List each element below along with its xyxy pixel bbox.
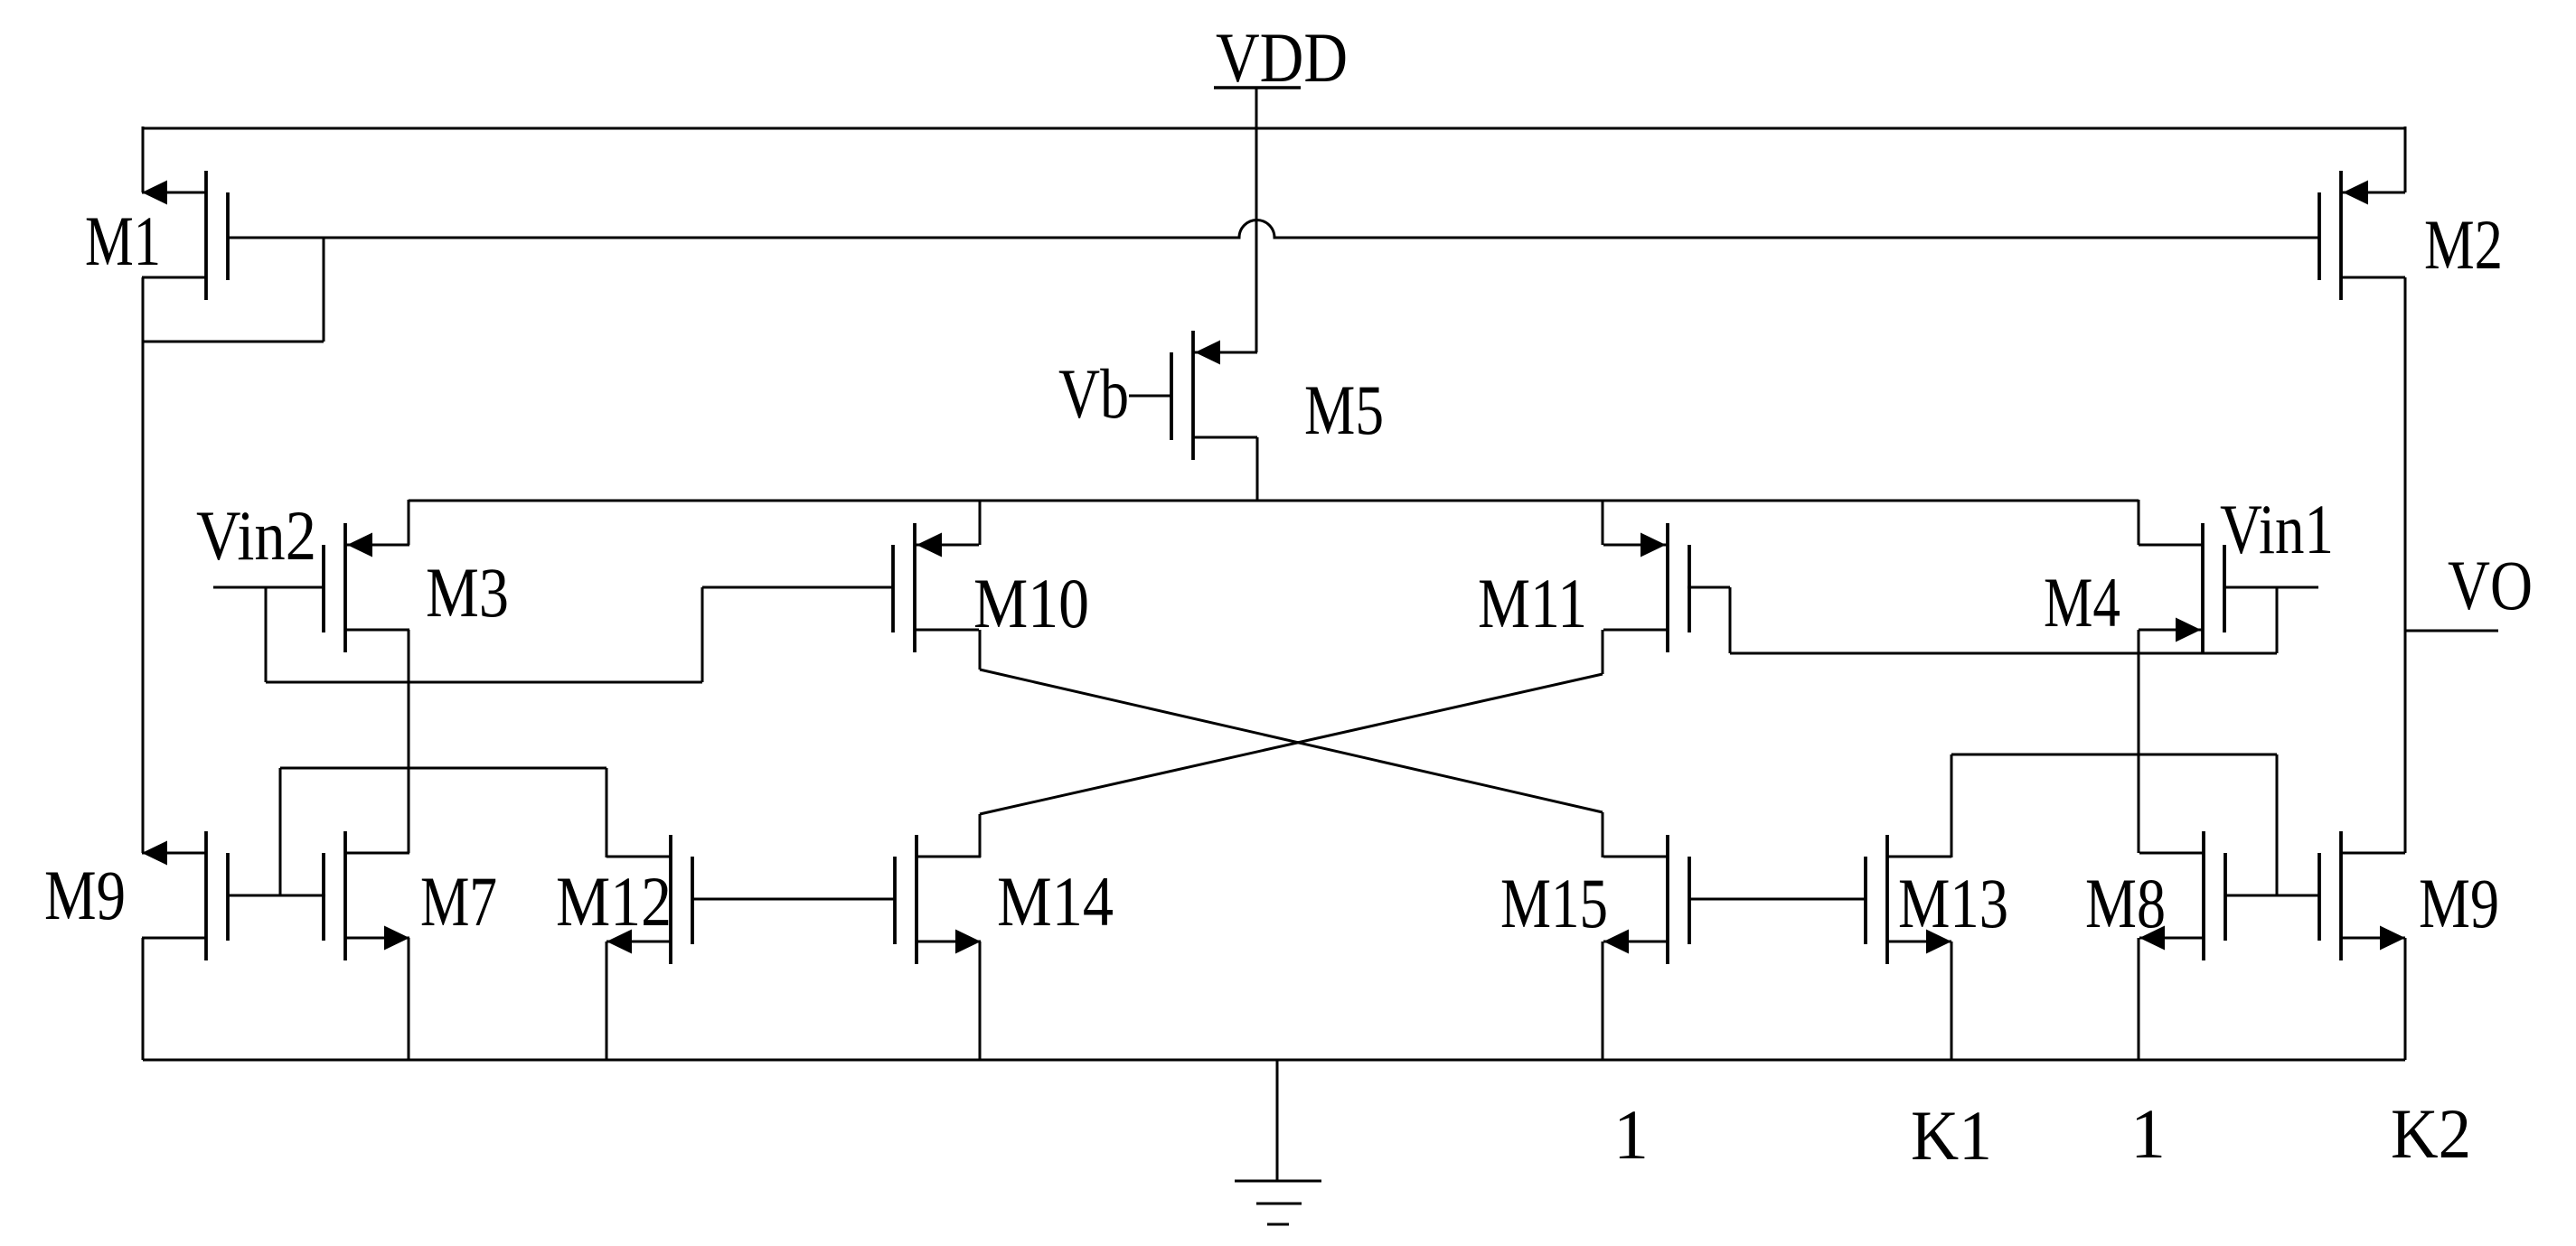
- transistor M3: [324, 523, 409, 652]
- VDD stem wire: [1255, 88, 1258, 352]
- M13 drain link drop to M8-M9 gates: [2276, 754, 2279, 895]
- M5 drain wire: [1256, 437, 1259, 501]
- VO output stub wire: [2405, 630, 2498, 632]
- transistor M1: [142, 171, 228, 300]
- ratio label K2 of M9: [2391, 1094, 2471, 1173]
- transistor M9 right: [2319, 831, 2405, 960]
- M3 label: [426, 553, 509, 632]
- M8 label: [2085, 864, 2166, 942]
- M14 drain riser: [979, 814, 982, 857]
- svg-text:M5: M5: [1304, 370, 1384, 449]
- tail rail wire: [409, 500, 2139, 502]
- svg-text:K2: K2: [2391, 1094, 2471, 1173]
- svg-text:Vin2: Vin2: [196, 496, 316, 575]
- M3 drain wire down to M7: [408, 630, 410, 853]
- M2 drain wire down right side: [2404, 277, 2407, 853]
- ratio label K1 of M13: [1911, 1096, 1992, 1175]
- M11 label: [1478, 564, 1587, 642]
- M12-M14 gate wire: [692, 898, 895, 901]
- M11 source drop wire: [1602, 500, 1604, 545]
- M8-M9 gate wire: [2225, 895, 2319, 897]
- M15-M13 gate wire: [1689, 898, 1865, 901]
- ratio label 1 of M15: [1613, 1095, 1649, 1174]
- svg-text:M3: M3: [426, 553, 509, 632]
- Vin1 gate stub wire: [2224, 586, 2318, 589]
- left source wire to M1: [142, 126, 145, 192]
- svg-text:K1: K1: [1911, 1096, 1992, 1175]
- svg-text:M1: M1: [85, 201, 161, 280]
- top VDD rail wire: [143, 127, 2405, 130]
- M5 label: [1304, 370, 1384, 449]
- M13 label: [1898, 864, 2008, 942]
- transistor M12: [606, 835, 692, 964]
- transistor M11: [1603, 523, 1689, 652]
- M11 gate wire: [1688, 586, 1730, 589]
- svg-text:M9: M9: [2419, 864, 2499, 942]
- Vin2 gate stub wire: [213, 586, 324, 589]
- transistor M15: [1603, 835, 1689, 964]
- M10 gate wire: [702, 586, 893, 589]
- svg-text:M11: M11: [1478, 564, 1587, 642]
- VDD label: [1216, 18, 1348, 97]
- M9 left label: [44, 856, 126, 934]
- M4 label: [2044, 563, 2120, 642]
- svg-text:M10: M10: [973, 564, 1089, 642]
- svg-text:VDD: VDD: [1216, 18, 1348, 97]
- transistor M14: [895, 835, 981, 964]
- M15 drain riser: [1602, 812, 1604, 857]
- transistor M9 left: [142, 831, 228, 960]
- svg-text:1: 1: [1613, 1095, 1649, 1174]
- svg-text:Vin1: Vin1: [2220, 490, 2334, 568]
- cross wire M10 drain to M15 drain: [980, 670, 1603, 812]
- M7 label: [420, 862, 497, 941]
- M12 source wire: [606, 942, 608, 1060]
- transistor M10: [893, 523, 979, 652]
- svg-text:M2: M2: [2424, 205, 2503, 284]
- M15 source wire: [1602, 942, 1604, 1060]
- transistor M5: [1171, 331, 1257, 460]
- M9 right source wire: [2404, 938, 2407, 1060]
- VDD terminal underline: [1214, 86, 1301, 89]
- svg-text:M14: M14: [997, 862, 1114, 941]
- M13 drain link horizontal: [1951, 754, 2277, 756]
- bottom rail wire: [143, 1059, 2405, 1062]
- M1 gate-drain tie horizontal: [143, 341, 324, 343]
- VO label: [2448, 546, 2533, 624]
- svg-text:M12: M12: [556, 862, 672, 941]
- transistor M13: [1866, 835, 1951, 964]
- cross wire M11 drain to M14 drain: [980, 674, 1603, 814]
- Vin2-M10 gate link drop: [265, 587, 268, 682]
- M12 drain link horizontal: [280, 767, 606, 770]
- svg-text:VO: VO: [2448, 546, 2533, 624]
- M2 label: [2424, 205, 2503, 284]
- ground stem: [1276, 1060, 1279, 1181]
- svg-text:1: 1: [2130, 1094, 2166, 1173]
- transistor M7: [324, 831, 409, 960]
- M9-M7 gate wire: [228, 895, 325, 897]
- M1 label: [85, 201, 161, 280]
- ground bar 2: [1256, 1203, 1302, 1205]
- M13 source wire: [1951, 942, 1953, 1060]
- M12 label: [556, 862, 672, 941]
- svg-text:M9: M9: [44, 856, 126, 934]
- M12 drain link drop: [279, 768, 282, 895]
- ratio label 1 of M8: [2130, 1094, 2166, 1173]
- right source wire to M2: [2404, 126, 2407, 192]
- ground bar 3: [1267, 1223, 1289, 1226]
- M10 source drop wire: [979, 500, 982, 545]
- svg-text:M7: M7: [420, 862, 497, 941]
- M1 gate-drain tie vertical: [323, 238, 325, 342]
- transistor M2: [2319, 171, 2405, 300]
- M10 drain wire: [979, 630, 982, 670]
- svg-text:M8: M8: [2085, 864, 2166, 942]
- transistor M8: [2139, 831, 2225, 960]
- transistor M4: [2139, 523, 2224, 652]
- M9 right label: [2419, 864, 2499, 942]
- M4 drain wire down to M8: [2138, 630, 2140, 853]
- M7 source wire: [408, 938, 410, 1060]
- Vin2-M10 gate link rise: [701, 587, 704, 682]
- M15 label: [1500, 864, 1608, 942]
- M12 drain link riser: [606, 768, 608, 857]
- M8 source wire: [2138, 938, 2140, 1060]
- M1 drain wire down left side: [142, 277, 145, 853]
- svg-text:M15: M15: [1500, 864, 1608, 942]
- M3 source drop wire: [408, 500, 410, 545]
- Vb label: [1058, 354, 1129, 433]
- Vb gate stub wire: [1129, 395, 1171, 398]
- M14 label: [997, 862, 1114, 941]
- Vin2-M10 gate link horizontal: [266, 681, 702, 684]
- M11-M4 gate link horizontal: [1730, 652, 2277, 655]
- svg-text:M13: M13: [1898, 864, 2008, 942]
- M9 left source wire: [142, 938, 145, 1060]
- M11-M4 gate link rise: [2276, 587, 2279, 653]
- M13 drain riser: [1951, 754, 1953, 857]
- ground bar 1: [1235, 1180, 1321, 1183]
- M10 label: [973, 564, 1089, 642]
- Vin1 label: [2220, 490, 2334, 568]
- M11 drain wire: [1602, 630, 1604, 674]
- M1-M2 gate bus with hop over VDD stem: [228, 220, 2320, 239]
- Vin2 label: [196, 496, 316, 575]
- M11-M4 gate link drop: [1729, 587, 1732, 653]
- svg-text:Vb: Vb: [1058, 354, 1129, 433]
- M4 source drop wire: [2138, 500, 2140, 545]
- M14 source wire: [979, 942, 982, 1060]
- svg-text:M4: M4: [2044, 563, 2120, 642]
